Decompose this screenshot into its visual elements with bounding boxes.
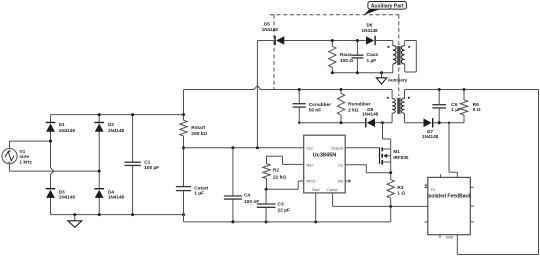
svg-text:Auxiliary Part: Auxiliary Part [371,4,404,10]
svg-text:C6: C6 [451,102,457,108]
svg-text:P1: P1 [431,188,435,192]
svg-text:1N4148: 1N4148 [108,195,125,200]
svg-text:R3: R3 [397,185,403,191]
svg-text:Comp: Comp [327,187,338,192]
svg-text:1N4148: 1N4148 [362,28,379,33]
svg-text:IRF530: IRF530 [393,155,409,160]
svg-text:Raux: Raux [340,52,352,58]
svg-text:Gnd: Gnd [312,187,320,192]
svg-text:sine: sine [19,154,29,160]
svg-text:1 Ω: 1 Ω [397,190,405,196]
svg-text:Csnubber: Csnubber [309,102,332,108]
svg-text:D3: D3 [59,189,65,194]
svg-text:1 µF: 1 µF [451,107,461,113]
svg-text:Cs: Cs [338,162,343,167]
svg-text:D6: D6 [367,23,373,28]
svg-text:22 µF: 22 µF [278,207,290,213]
svg-text:2 kΩ: 2 kΩ [348,107,359,113]
svg-text:Auxiliary: Auxiliary [388,78,408,83]
svg-text:Vcc: Vcc [306,145,313,150]
svg-text:Ref: Ref [306,162,313,167]
svg-text:100 Ω: 100 Ω [340,58,353,64]
svg-text:R6: R6 [473,102,479,108]
svg-text:1 kHz: 1 kHz [19,160,32,166]
svg-text:1N4148: 1N4148 [59,195,76,200]
svg-text:Cstart: Cstart [194,185,208,191]
svg-text:FB: FB [338,179,343,184]
svg-text:V1: V1 [19,149,25,155]
svg-text:1N4148: 1N4148 [422,134,439,139]
svg-text:D2: D2 [108,122,114,127]
svg-text:1 µF: 1 µF [367,58,377,64]
svg-text:250 kΩ: 250 kΩ [191,131,207,137]
svg-text:GND: GND [446,236,454,240]
svg-text:R2: R2 [273,167,279,173]
svg-text:1N4148: 1N4148 [262,27,279,32]
svg-text:D4: D4 [108,189,114,194]
svg-text:1N4148: 1N4148 [362,112,379,117]
svg-text:D1: D1 [59,122,65,127]
svg-text:Output: Output [331,145,344,150]
svg-text:22 kΩ: 22 kΩ [273,174,286,180]
svg-text:D5: D5 [264,21,270,26]
svg-text:100 µF: 100 µF [144,165,159,171]
svg-text:Rt/Ct: Rt/Ct [306,179,316,184]
svg-text:C4: C4 [244,193,250,199]
svg-text:1 µF: 1 µF [194,190,204,196]
svg-text:C1: C1 [144,160,150,166]
svg-text:Caux: Caux [367,52,379,58]
svg-text:M1: M1 [393,149,400,154]
svg-text:1N4148: 1N4148 [59,128,76,133]
svg-text:Isolated FeedBack: Isolated FeedBack [427,194,471,200]
svg-text:Rstart: Rstart [191,125,205,131]
svg-text:C3: C3 [278,202,284,208]
svg-text:50 nF: 50 nF [309,108,322,114]
svg-text:Uc3845N: Uc3845N [313,153,337,159]
svg-text:1N4148: 1N4148 [108,128,125,133]
svg-text:5 Ω: 5 Ω [473,107,481,113]
